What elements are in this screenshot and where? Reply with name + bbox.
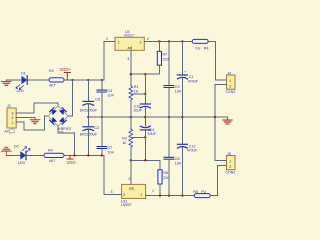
node rail/C1 <box>181 40 183 42</box>
bridge rectifier D3 KBP307 <box>48 106 71 134</box>
ground GND2 <box>30 118 40 125</box>
svg-text:470UF: 470UF <box>187 149 198 153</box>
svg-text:D2: D2 <box>14 144 19 148</box>
capacitor C8 104 <box>164 117 181 196</box>
svg-text:C7: C7 <box>108 146 113 150</box>
connector J5 <box>226 152 236 175</box>
power VDD+ <box>60 67 72 80</box>
svg-text:2: 2 <box>147 37 149 41</box>
svg-text:1: 1 <box>106 37 108 41</box>
svg-text:2: 2 <box>129 177 131 181</box>
svg-text:lm317: lm317 <box>124 34 134 38</box>
node adj2/C11 <box>144 159 146 161</box>
diode D1 (LED) <box>16 72 27 94</box>
ground GND1 <box>2 80 12 86</box>
svg-text:R8: R8 <box>163 171 168 175</box>
node GND/C9 <box>168 116 170 118</box>
svg-text:4K7: 4K7 <box>49 159 56 163</box>
node GND/C10 <box>144 116 146 118</box>
wire J1 pin3 to bridge top <box>16 103 58 113</box>
ground GND3 <box>223 120 233 124</box>
svg-text:R1: R1 <box>134 85 139 89</box>
resistor FU R4 (fuse) <box>192 39 208 50</box>
capacitor C1 470UF <box>177 41 198 117</box>
svg-text:VDD-: VDD- <box>67 160 78 165</box>
wire J1 pin2 to ground <box>16 117 35 119</box>
capacitor C12 470UF <box>177 117 197 196</box>
wire bridge bottom to VDD- <box>58 126 75 155</box>
resistor R5 FU (fuse) <box>193 190 210 198</box>
svg-text:C2: C2 <box>94 126 99 130</box>
capacitor C2 DR2200UF <box>80 117 99 155</box>
node GND/J wire <box>214 116 216 118</box>
node adj/C10 <box>144 73 146 75</box>
svg-text:D1: D1 <box>21 72 26 76</box>
capacitor C4 104 <box>97 80 114 117</box>
diode D2 (LED) <box>14 144 30 165</box>
svg-text:LM337: LM337 <box>121 203 132 207</box>
svg-text:LED: LED <box>18 161 26 165</box>
node VDD+/C4 junction <box>101 79 103 81</box>
svg-text:C6: C6 <box>95 98 100 102</box>
node GND/C6 <box>87 116 89 118</box>
svg-text:J5: J5 <box>227 152 231 156</box>
svg-text:104: 104 <box>108 151 114 155</box>
node VDD+/bridge junction <box>71 79 73 81</box>
wire bridge right to VDD+ <box>68 80 73 116</box>
node rail/C9 <box>168 40 170 42</box>
capacitor C10 10UF <box>133 74 150 117</box>
wire J1 pin1 to bridge left <box>16 116 48 130</box>
svg-text:C9: C9 <box>175 85 180 89</box>
wire <box>26 154 44 156</box>
node out/C8 <box>168 194 170 196</box>
resistor R7 220 <box>157 41 168 74</box>
svg-text:1: 1 <box>118 41 120 45</box>
svg-text:10UF: 10UF <box>148 132 157 136</box>
svg-text:2: 2 <box>229 85 231 89</box>
wire <box>6 154 20 156</box>
node VDD+/C6 junction <box>87 79 89 81</box>
node out/C12 <box>181 194 183 196</box>
svg-text:R7: R7 <box>163 53 168 57</box>
wire to J5 <box>210 166 226 196</box>
svg-text:R4: R4 <box>204 46 209 50</box>
wire U4 pin1 <box>104 41 115 80</box>
svg-text:1K: 1K <box>134 90 139 94</box>
power VDD- <box>67 155 78 164</box>
resistor R2 1k <box>122 117 145 160</box>
node VDD-/bridge <box>73 154 75 156</box>
svg-text:2: 2 <box>229 165 231 169</box>
wire adj2 line <box>131 160 160 170</box>
svg-text:R3: R3 <box>49 69 54 73</box>
capacitor C6 DR2200UF <box>80 80 100 117</box>
svg-text:104: 104 <box>175 161 181 165</box>
svg-text:1: 1 <box>229 159 231 163</box>
svg-text:1: 1 <box>141 193 143 197</box>
svg-text:adj: adj <box>129 187 134 191</box>
svg-text:220: 220 <box>163 57 169 61</box>
svg-text:1: 1 <box>12 121 14 125</box>
node R2 tap/C11 <box>144 136 146 138</box>
svg-text:1: 1 <box>229 79 231 83</box>
node GND/C4 <box>101 116 103 118</box>
wire J4 pin2 to GND rail to J5 pin1 <box>215 84 227 160</box>
wire VDD- rail <box>64 154 104 156</box>
svg-text:R2: R2 <box>122 137 127 141</box>
svg-text:CON2: CON2 <box>226 90 236 94</box>
svg-text:R5: R5 <box>193 190 198 194</box>
resistor R3 <box>49 69 64 88</box>
svg-text:J1: J1 <box>7 104 11 108</box>
svg-text:C8: C8 <box>175 157 180 161</box>
wire GND mid rail <box>88 117 227 119</box>
wire U11 adj <box>130 160 132 184</box>
svg-text:2: 2 <box>140 41 142 45</box>
resistor R8 220 <box>158 170 170 196</box>
svg-text:D3: D3 <box>59 130 64 134</box>
node R1 tap/C10 <box>144 93 146 95</box>
node adj/U4 <box>130 73 132 75</box>
connector J4 <box>226 71 236 94</box>
node VDD-/C7 <box>101 154 103 156</box>
capacitor C11 10UF <box>140 117 156 160</box>
svg-text:R4: R4 <box>48 149 53 153</box>
wire VDD+ rail <box>64 79 104 81</box>
svg-text:104: 104 <box>108 94 114 98</box>
wire VDD- to U11 pin3 <box>104 155 122 194</box>
svg-text:3: 3 <box>111 190 113 194</box>
svg-text:2: 2 <box>123 193 125 197</box>
svg-text:FU: FU <box>201 190 206 194</box>
svg-text:10UF: 10UF <box>133 109 142 113</box>
svg-text:470UF: 470UF <box>188 79 199 83</box>
ground GND4 (inverted) <box>2 147 12 156</box>
op-amp U11 LM337 <box>121 177 154 207</box>
node VDD-/C2 <box>87 154 89 156</box>
svg-text:LED: LED <box>17 89 25 93</box>
svg-text:+: + <box>184 70 186 74</box>
node rail/R7 <box>158 40 160 42</box>
wire to J4 <box>208 41 226 80</box>
wire U11 out rail <box>146 195 195 197</box>
resistor R4 <box>44 149 64 163</box>
node GND/C1 <box>181 116 183 118</box>
svg-text:C4: C4 <box>108 89 113 93</box>
resistor R1 1K <box>129 85 145 117</box>
svg-text:104: 104 <box>175 90 181 94</box>
svg-text:4K7: 4K7 <box>49 84 56 88</box>
svg-text:VDD+: VDD+ <box>60 67 72 72</box>
wire <box>6 79 21 81</box>
capacitor C7 104 <box>97 117 114 155</box>
svg-text:CON2: CON2 <box>226 171 236 175</box>
node GND/R1 <box>130 116 132 118</box>
node out/R8 <box>159 194 161 196</box>
svg-text:adj: adj <box>128 46 133 50</box>
svg-text:3: 3 <box>127 57 129 61</box>
svg-text:1: 1 <box>152 189 154 193</box>
capacitor C9 104 <box>164 41 181 117</box>
node adj2/R2 <box>130 159 132 161</box>
svg-text:J4: J4 <box>227 71 231 75</box>
wire <box>27 79 49 81</box>
svg-text:2: 2 <box>12 116 14 120</box>
wire adj line <box>131 73 160 75</box>
svg-text:1k: 1k <box>122 141 126 145</box>
wire U4 adj <box>130 50 132 85</box>
svg-text:3: 3 <box>12 111 14 115</box>
op-amp U4 lm317 <box>106 30 149 61</box>
svg-text:FU: FU <box>196 46 201 50</box>
wire U4 pin2 rail <box>144 40 192 42</box>
connector J1 <box>5 104 17 134</box>
